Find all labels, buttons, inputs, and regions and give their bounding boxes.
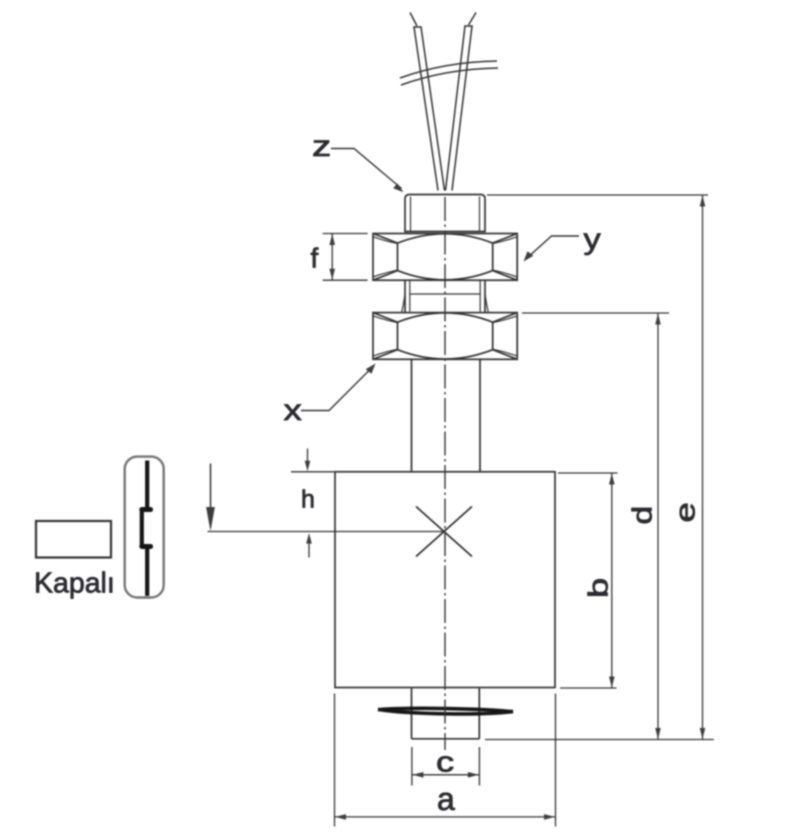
svg-text:c: c: [436, 745, 454, 778]
svg-text:f: f: [311, 243, 319, 274]
svg-text:d: d: [626, 506, 658, 525]
svg-text:z: z: [312, 130, 331, 163]
svg-text:h: h: [301, 486, 315, 514]
svg-text:x: x: [284, 394, 303, 427]
svg-text:y: y: [584, 222, 602, 255]
svg-text:b: b: [582, 578, 613, 598]
svg-text:Kapalı: Kapalı: [34, 568, 115, 600]
svg-text:a: a: [437, 781, 455, 817]
svg-text:e: e: [669, 502, 700, 522]
